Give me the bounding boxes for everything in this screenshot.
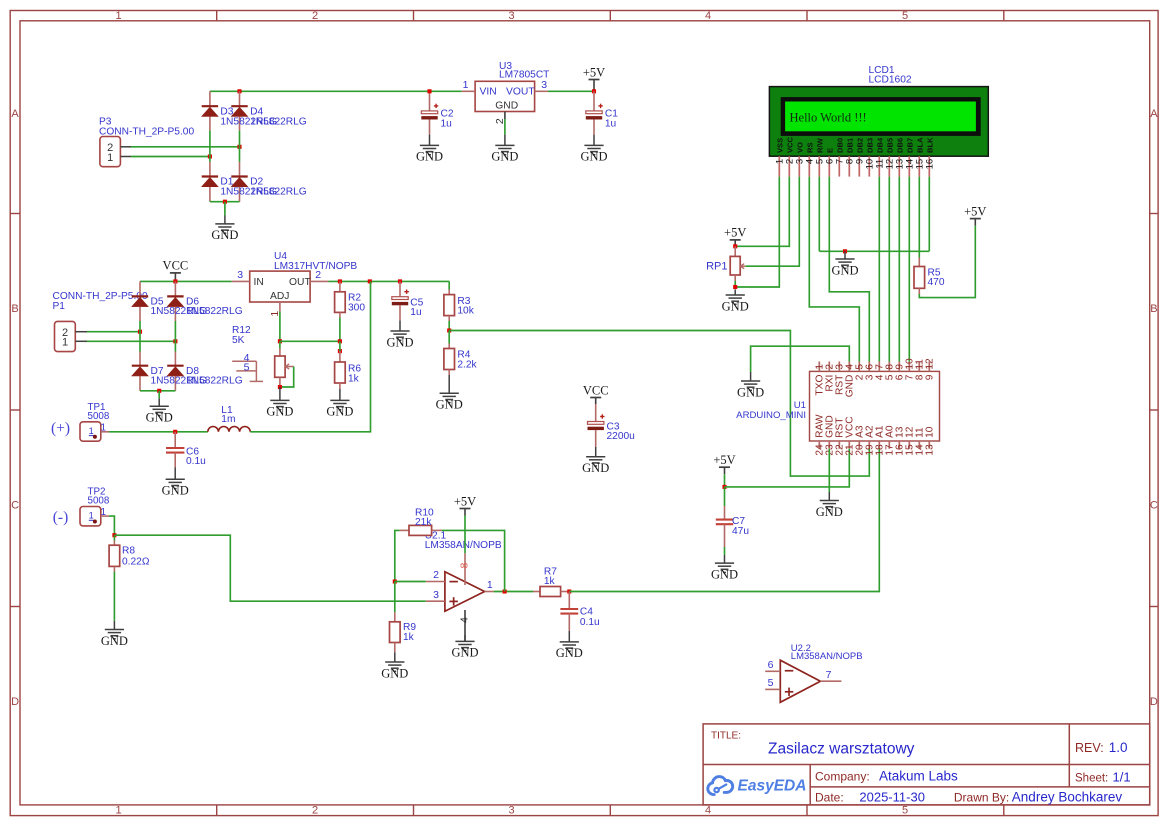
svg-text:RS: RS [805, 142, 814, 153]
svg-text:LCD1602: LCD1602 [869, 74, 912, 85]
pin 11 8 [915, 359, 926, 381]
svg-text:470: 470 [928, 277, 945, 288]
svg-text:3: 3 [508, 10, 514, 22]
ground [394, 652, 396, 662]
svg-text:6: 6 [768, 659, 774, 671]
ground [448, 375, 450, 393]
label C4 0.1u [580, 606, 600, 628]
ground [504, 135, 506, 146]
wire arduino pin23 to ground [828, 449, 830, 492]
pin 20 A3 [855, 425, 866, 456]
svg-text:DB3: DB3 [865, 138, 874, 153]
svg-text:2025-11-30: 2025-11-30 [859, 789, 925, 804]
ground [734, 289, 736, 295]
svg-text:DB0: DB0 [835, 138, 844, 153]
connector P1 [55, 321, 88, 351]
wire R3R4 node to arduino A2 [449, 331, 869, 477]
wire TP2 to node [109, 516, 114, 535]
pin 2 VCC [785, 136, 796, 176]
rev text [1075, 740, 1127, 755]
pin 11 DB4 [875, 137, 886, 177]
pin 16 13 [895, 426, 906, 455]
svg-text:C4: C4 [580, 606, 593, 617]
svg-text:(+): (+) [51, 420, 70, 437]
svg-text:1k: 1k [544, 576, 556, 587]
svg-text:1u: 1u [441, 118, 452, 129]
label R6 1k [348, 364, 361, 385]
svg-text:GND: GND [211, 228, 238, 242]
svg-text:12: 12 [925, 358, 936, 370]
svg-text:IN: IN [254, 277, 264, 288]
svg-text:4: 4 [705, 10, 711, 22]
junction [733, 244, 737, 248]
ground [224, 216, 226, 224]
pin 7 4 [875, 362, 886, 381]
resistor R3 [444, 290, 455, 331]
label P3 CONN-TH_2P-P5.00 [99, 117, 194, 138]
inductor L1 [208, 427, 250, 432]
junction [447, 328, 451, 332]
svg-text:3: 3 [237, 269, 243, 281]
wire LCD BLA to R5 [918, 177, 920, 258]
wire +5V to arduino VCC pin [725, 449, 850, 487]
title block [703, 724, 1150, 805]
pin 4 V- [458, 610, 470, 641]
ground [279, 387, 281, 400]
junction [338, 349, 342, 353]
wire LCD DB5 to arduino pin8 [888, 177, 890, 362]
ground [113, 621, 115, 630]
svg-text:Atakum Labs: Atakum Labs [879, 768, 958, 783]
capacitor C3 [588, 404, 605, 447]
svg-text:GND: GND [580, 150, 607, 164]
label R10 21k [415, 508, 434, 529]
wire P3 pin1 to bridge [131, 156, 210, 158]
pin 10 DB3 [865, 138, 876, 177]
svg-text:GND: GND [831, 263, 858, 277]
junction [237, 145, 241, 149]
svg-text:Sheet:: Sheet: [1075, 772, 1108, 784]
svg-text:VCC: VCC [583, 383, 609, 397]
svg-text:C: C [11, 500, 19, 512]
svg-text:GND: GND [146, 411, 173, 425]
svg-text:GND: GND [737, 385, 764, 399]
resistor R9 [390, 582, 401, 653]
svg-text:3: 3 [433, 589, 439, 601]
label U4 LM317HVT/NOPB [274, 251, 357, 272]
svg-text:GND: GND [386, 335, 413, 349]
svg-text:1k: 1k [348, 374, 360, 385]
label R5 470 [928, 268, 945, 289]
svg-text:1.0: 1.0 [1109, 740, 1128, 755]
pin 8 DB1 [845, 137, 856, 177]
wire lcd ground rail [819, 250, 929, 252]
svg-text:C: C [1150, 500, 1158, 512]
svg-text:1: 1 [115, 805, 121, 817]
wire output [494, 591, 533, 593]
pin 5 2 [855, 362, 866, 381]
power VCC [583, 383, 609, 404]
resistor R4 [444, 331, 455, 376]
wire bridge2 bottom [140, 390, 175, 392]
svg-text:2: 2 [433, 569, 439, 581]
ground [399, 321, 401, 331]
wire bridge2 right column [174, 281, 176, 390]
svg-text:EasyEDA: EasyEDA [738, 778, 807, 795]
label U2.1 LM358AN/NOPB [425, 530, 502, 551]
wire TP2 node to opamp plus [114, 535, 425, 601]
label R8 0.22Ω [122, 546, 150, 568]
svg-text:5008: 5008 [88, 411, 110, 422]
pin 14 DB7 [905, 138, 916, 177]
svg-text:47u: 47u [732, 526, 749, 537]
wire LCD BLK to gnd rail [928, 177, 930, 252]
wire LCD VCC to +5V node [735, 177, 789, 247]
svg-text:TITLE:: TITLE: [711, 731, 741, 742]
diode D3 [202, 105, 218, 107]
svg-text:B: B [11, 303, 18, 315]
pin 3 RST [835, 362, 846, 395]
svg-text:5: 5 [244, 362, 250, 374]
label TP1 5008 [88, 402, 110, 422]
wire bridge bottom [210, 201, 240, 203]
label LCD1 LCD1602 [869, 65, 912, 85]
svg-text:1k: 1k [403, 632, 415, 643]
svg-text:Andrey Bochkarev: Andrey Bochkarev [1012, 789, 1123, 804]
svg-text:10k: 10k [457, 306, 474, 317]
capacitor C1 [586, 91, 603, 134]
junction [208, 154, 212, 158]
svg-text:Date:: Date: [815, 790, 844, 804]
label TP2 5008 [88, 487, 110, 507]
wire bridge right column [239, 91, 241, 201]
svg-text:RP1: RP1 [706, 261, 727, 273]
svg-text:2: 2 [494, 118, 506, 124]
resistor R5 [914, 258, 925, 295]
potentiometer R12 [275, 341, 285, 387]
junction [368, 279, 372, 283]
junction [338, 279, 342, 283]
svg-text:GND: GND [711, 567, 738, 581]
svg-text:0.22Ω: 0.22Ω [122, 557, 150, 568]
pin 8 5 [885, 362, 896, 381]
label L1 1m [221, 405, 235, 425]
svg-text:Drawn By:: Drawn By: [954, 790, 1009, 804]
diode D5 [132, 295, 148, 297]
svg-text:1N5822RLG: 1N5822RLG [250, 117, 307, 128]
svg-text:LM358AN/NOPB: LM358AN/NOPB [425, 540, 502, 551]
svg-text:5: 5 [902, 10, 908, 22]
wire bridge2 top rail [140, 280, 232, 282]
label R9 1k [403, 622, 416, 643]
junction [398, 279, 402, 283]
svg-text:7: 7 [826, 669, 832, 681]
svg-text:VOUT: VOUT [506, 87, 535, 98]
power VCC [163, 259, 189, 282]
svg-text:B: B [1150, 303, 1157, 315]
svg-text:1N5822RLG: 1N5822RLG [186, 376, 243, 387]
pin 8 V+ [458, 553, 470, 585]
svg-text:2: 2 [312, 805, 318, 817]
test point TP2 [80, 507, 109, 526]
wire ADJ to R2/R6 node [280, 340, 340, 342]
label U2.2 LM358AN/NOPB [791, 643, 863, 662]
power +5V [583, 65, 605, 91]
pin 4 GND [845, 362, 856, 398]
svg-text:+5V: +5V [724, 226, 746, 240]
svg-text:OUT: OUT [289, 277, 311, 288]
sheet text [1075, 769, 1131, 784]
ground [724, 555, 726, 563]
capacitor C5 [392, 281, 409, 320]
svg-text:ARDUINO_MINI: ARDUINO_MINI [736, 410, 806, 421]
wire to ground [158, 391, 160, 399]
capacitor C4 [560, 592, 578, 631]
svg-text:Zasilacz warsztatowy: Zasilacz warsztatowy [768, 741, 915, 758]
wire to ground [224, 202, 226, 216]
svg-text:1: 1 [463, 79, 469, 91]
pin 4 5 marks [232, 352, 263, 381]
junction [427, 89, 431, 93]
svg-text:REV:: REV: [1075, 741, 1104, 755]
svg-text:5008: 5008 [88, 495, 110, 506]
svg-text:2: 2 [315, 269, 321, 281]
svg-text:0.1u: 0.1u [580, 617, 600, 628]
svg-text:300: 300 [348, 302, 365, 313]
resistor R8 [109, 535, 120, 621]
svg-text:GND: GND [495, 101, 518, 112]
resistor R10 [400, 525, 442, 535]
wire LCD VSS to gnd node [735, 177, 779, 287]
wire bridge top rail [210, 90, 462, 92]
junction [503, 589, 507, 593]
svg-text:DB7: DB7 [905, 138, 914, 153]
svg-text:3: 3 [508, 805, 514, 817]
junction [157, 389, 161, 393]
svg-text:DB2: DB2 [855, 138, 864, 153]
pin 17 A0 [885, 425, 896, 456]
pin 10 7 [905, 358, 916, 380]
diode D6 [167, 295, 183, 297]
wire feedback [441, 530, 504, 591]
wire LCD VO to RP1 wiper [745, 177, 799, 267]
pin 3 [535, 79, 548, 91]
label C6 0.1u [186, 446, 206, 467]
pin 6 [765, 659, 780, 671]
junction [592, 89, 596, 93]
label D5 D6 1N5822RLG [151, 297, 243, 317]
svg-text:BLA: BLA [915, 137, 924, 153]
resistor R7 [533, 587, 569, 597]
svg-text:GND: GND [326, 405, 353, 419]
svg-text:4: 4 [705, 805, 711, 817]
junction [393, 579, 397, 583]
pin 14 11 [915, 427, 926, 456]
pin 13 DB6 [895, 138, 906, 177]
svg-text:1: 1 [62, 337, 68, 349]
label R3 10k [457, 296, 474, 317]
svg-text:5: 5 [902, 805, 908, 817]
wire U4 out rail [328, 280, 449, 282]
op-amp U2.2 LM358AN/NOPB [780, 660, 820, 702]
svg-text:A: A [1150, 108, 1158, 120]
pin 7 DB0 [835, 138, 846, 177]
pin 2 [494, 112, 506, 135]
svg-text:+5V: +5V [964, 204, 986, 218]
mcu module U1 ARDUINO_MINI [810, 371, 940, 441]
svg-text:D: D [1150, 696, 1158, 708]
pin 1 [462, 79, 475, 91]
svg-text:1: 1 [487, 579, 493, 591]
svg-text:0.1u: 0.1u [186, 456, 206, 467]
pin 6 E [825, 148, 836, 177]
pin 18 A1 [875, 425, 886, 456]
pin 5 R/W [815, 137, 826, 176]
svg-text:R/W: R/W [815, 137, 824, 153]
svg-text:GND: GND [436, 398, 463, 412]
wire LCD RS to arduino pin5 [809, 177, 859, 362]
diode D4 [231, 105, 247, 107]
label C1 1u [605, 109, 618, 130]
svg-text:BLK: BLK [925, 137, 934, 153]
pin 4 RS [805, 142, 816, 176]
resistor R6 [335, 341, 346, 389]
easyeda logo [708, 777, 807, 795]
svg-text:1: 1 [115, 10, 121, 22]
company text [815, 768, 958, 783]
junction [237, 89, 241, 93]
junction [278, 339, 282, 343]
junction [138, 330, 142, 334]
junction [223, 200, 227, 204]
svg-text:D: D [11, 696, 19, 708]
wire TP1 to L1 [109, 431, 208, 433]
op IC U3 LM7805CT [475, 81, 535, 111]
svg-text:2200u: 2200u [607, 431, 635, 442]
pin 15 12 [905, 426, 916, 455]
label D3 D4 1N5822RLG [220, 107, 306, 128]
svg-text:GND: GND [556, 646, 583, 660]
wire LCD DB6 to arduino pin9 [898, 177, 900, 362]
junction [722, 485, 726, 489]
pin 9 6 [895, 362, 906, 381]
svg-text:DB6: DB6 [895, 138, 904, 153]
svg-text:VCC: VCC [163, 259, 189, 273]
pin 13 10 [925, 426, 936, 455]
svg-text:GND: GND [491, 150, 518, 164]
svg-text:1N5822RLG: 1N5822RLG [250, 187, 307, 198]
pin 12 9 [925, 358, 936, 380]
pin 24 RAW [815, 414, 826, 456]
svg-text:+5V: +5V [454, 494, 476, 508]
label R7 1k [544, 567, 557, 588]
junction [733, 285, 737, 289]
wire P1 pin1 [87, 340, 175, 342]
pin 2 inverting [426, 569, 445, 581]
wire bridge2 left column [139, 281, 141, 390]
capacitor C6 [166, 432, 184, 468]
power +5V [724, 226, 746, 247]
diode D1 [202, 175, 218, 177]
svg-text:GND: GND [101, 634, 128, 648]
label U3 LM7805CT [499, 61, 549, 80]
svg-text:GND: GND [416, 150, 443, 164]
title text [711, 731, 915, 758]
svg-text:2: 2 [312, 10, 318, 22]
ground [464, 635, 466, 641]
wire bridge left column [209, 91, 211, 201]
pin 22 RST [835, 418, 846, 456]
svg-text:VIN: VIN [480, 87, 497, 98]
ground [844, 251, 846, 259]
svg-text:1m: 1m [221, 414, 235, 425]
pin 16 BLK [925, 137, 936, 177]
svg-text:1: 1 [89, 511, 94, 521]
pin 21 VCC [845, 416, 856, 455]
wire P3 pin2 to bridge [131, 146, 240, 148]
capacitor C7 [716, 487, 733, 555]
wire R10 left to node [395, 530, 400, 581]
pin 19 A2 [865, 425, 876, 456]
pin 15 BLA [915, 137, 926, 177]
svg-text:DB5: DB5 [885, 137, 894, 153]
pin 9 DB2 [855, 138, 866, 177]
pin 3 non-inverting [426, 589, 445, 601]
svg-text:1N5822RLG: 1N5822RLG [186, 306, 243, 317]
svg-text:GND: GND [381, 666, 408, 680]
label C2 1u [441, 109, 454, 130]
pin 1 ADJ [269, 302, 281, 317]
svg-text:GND: GND [451, 646, 478, 660]
svg-text:Hello World !!!: Hello World !!! [790, 111, 867, 125]
pin 6 3 [865, 362, 876, 381]
svg-text:DB4: DB4 [875, 137, 884, 153]
label C5 1u [410, 297, 423, 318]
label D1 D2 1N5822RLG [220, 176, 306, 197]
connector P3 [100, 137, 131, 167]
power +5V [713, 453, 735, 487]
label C7 47u [732, 516, 749, 537]
svg-text:GND: GND [722, 299, 749, 313]
ground [158, 398, 160, 406]
svg-text:VCC: VCC [785, 136, 794, 153]
wire LCD E to arduino pin6 [829, 177, 869, 362]
label R4 2.2k [457, 350, 477, 371]
regulator U4 LM317HVT/NOPB [250, 271, 312, 302]
test point TP1 [80, 422, 109, 441]
ground [568, 631, 570, 642]
pin 12 DB5 [885, 137, 896, 177]
svg-text:9: 9 [925, 374, 936, 380]
display LCD1 LCD1602 [769, 87, 988, 157]
svg-text:4: 4 [458, 617, 470, 623]
resistor R2 [335, 281, 346, 341]
svg-text:(-): (-) [53, 509, 69, 526]
junction [173, 430, 177, 434]
pin 5 [765, 677, 780, 689]
svg-text:+5V: +5V [713, 453, 735, 467]
pin 3 [232, 269, 250, 281]
wire LCD R/W to gnd rail [818, 177, 820, 252]
pin 3 VO [795, 142, 806, 177]
svg-text:8: 8 [458, 563, 470, 569]
wire ADJ down [279, 312, 281, 342]
ground [828, 492, 830, 501]
pin 7 output [820, 669, 841, 681]
svg-text:1: 1 [89, 426, 94, 436]
svg-text:5: 5 [768, 677, 774, 689]
junction [843, 249, 847, 253]
